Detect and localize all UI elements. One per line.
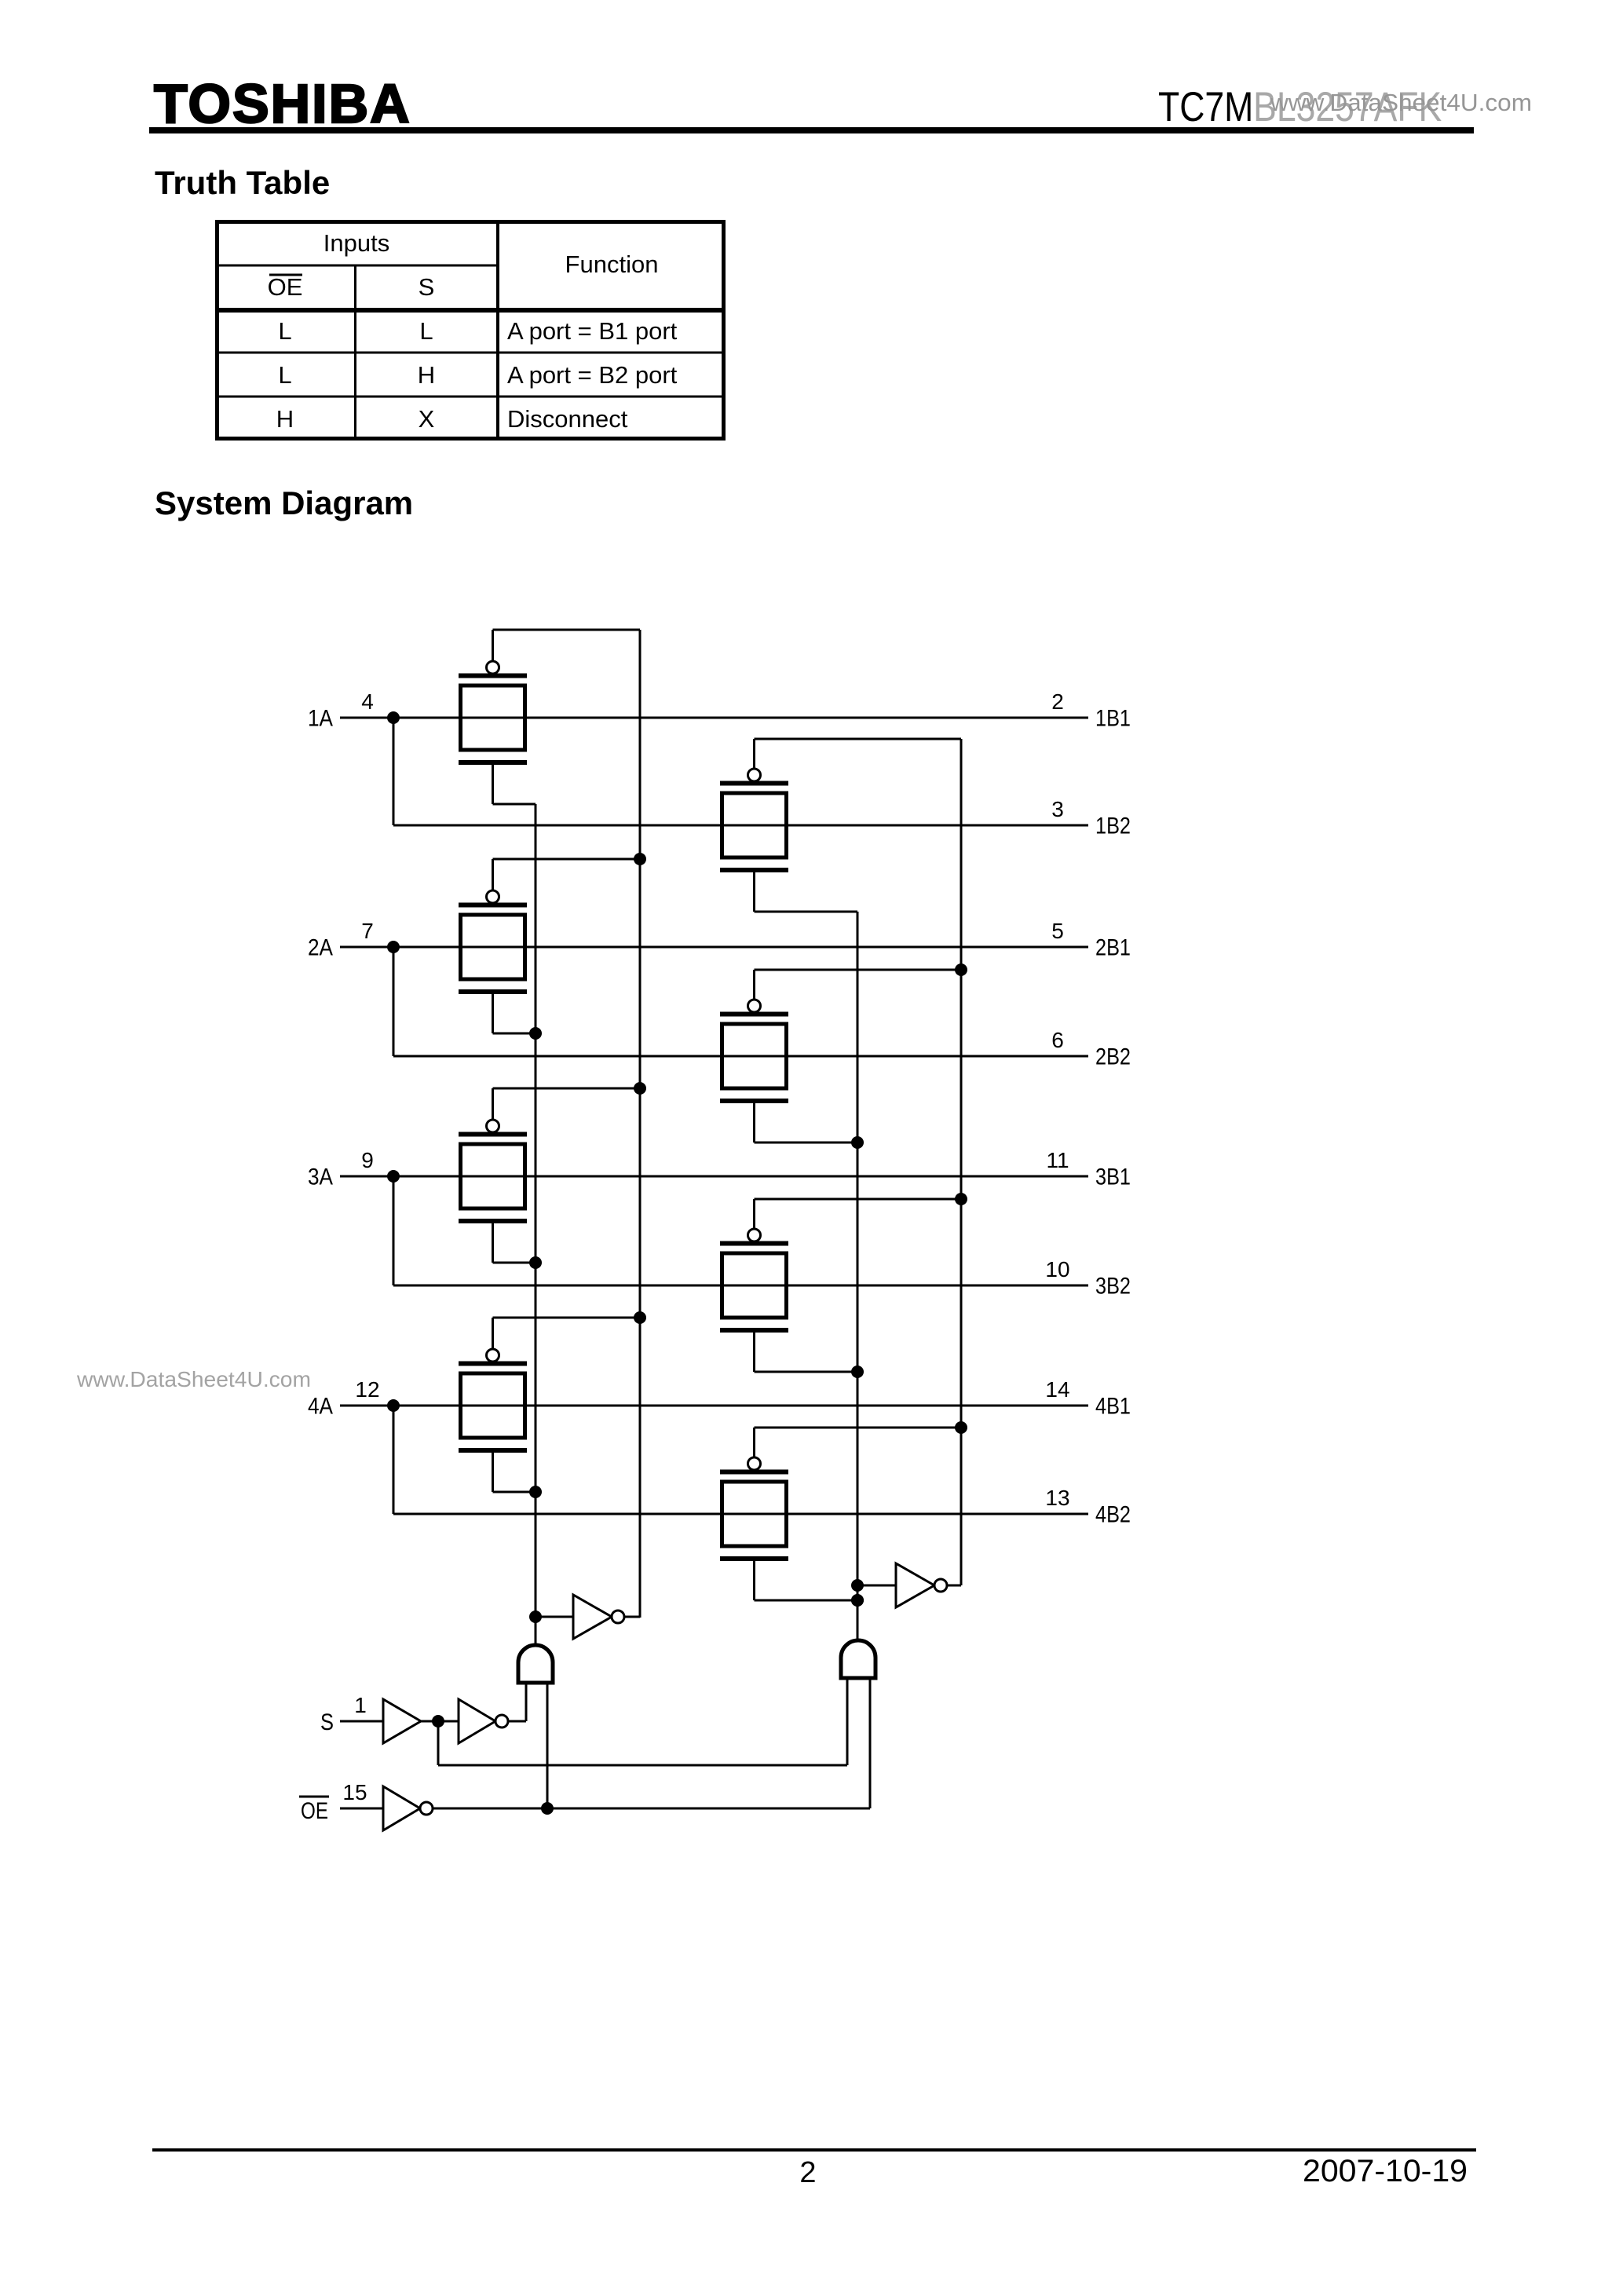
svg-text:3: 3 (1051, 797, 1064, 821)
pin 5 (2B1) (1051, 919, 1064, 943)
svg-text:H: H (418, 361, 435, 389)
wire U4 output to rail (623, 1616, 640, 1618)
wire 2B2 line (393, 1055, 1088, 1058)
wire SW2B top gate to rail (755, 970, 962, 1000)
node SW3B top gate on rail (955, 1193, 967, 1205)
table row 2 (278, 361, 677, 389)
wire 1A to 1B1 line (340, 717, 1088, 719)
pin 12 (4A) (355, 1377, 379, 1402)
wire rail: AND1 output to A-switch bottom gates (535, 804, 537, 1645)
svg-text:2: 2 (1051, 689, 1064, 714)
node 1B1 label (1095, 706, 1131, 732)
wire 2A branch down to 2B2 line (393, 947, 395, 1056)
node 3B1 label (1095, 1164, 1131, 1190)
wire SW4B top gate to rail (755, 1428, 962, 1458)
wire SW1A bottom gate to rail (493, 765, 536, 804)
table row 3 (276, 405, 628, 433)
switch SW3B (3A-3B2) (720, 1229, 788, 1333)
switch SW4B (4A-4B2) (720, 1457, 788, 1561)
wire G2 output to inverter U5 (857, 1585, 896, 1587)
svg-text:3B2: 3B2 (1095, 1274, 1131, 1300)
wire SW4A bottom gate to rail (493, 1453, 536, 1492)
node OE label with overline (299, 1797, 329, 1824)
switch SW1A (1A-1B1) (459, 661, 527, 765)
page number (799, 2156, 816, 2189)
wire S junction to AND2 input (438, 1678, 847, 1765)
svg-text:1A: 1A (308, 706, 333, 732)
wire 3A to 3B1 line (340, 1175, 1088, 1178)
wire rail: inverter U4 output to A-switch top gates (639, 630, 642, 1618)
node 2B2 label (1095, 1044, 1131, 1070)
node 1A junction (387, 711, 400, 724)
switch SW1B (1A-1B2) (720, 769, 788, 872)
pin 7 (2A) (361, 919, 374, 943)
node 3A junction (387, 1170, 400, 1183)
node SW2A bottom gate on rail (529, 1027, 542, 1040)
pin 9 (3A) (361, 1148, 374, 1172)
pin 11 (3B1) (1046, 1148, 1069, 1172)
svg-text:Function: Function (565, 250, 659, 278)
svg-text:www.DataSheet4U.com: www.DataSheet4U.com (1270, 89, 1532, 116)
node S label (320, 1709, 334, 1735)
pin 10 (3B2) (1045, 1257, 1069, 1281)
node G2 output junction (4B2 gate) (851, 1594, 864, 1607)
wire G1 right input from OE line (546, 1683, 549, 1808)
svg-text:H: H (276, 405, 294, 433)
node 3A label (308, 1164, 333, 1190)
node 4B2 label (1095, 1502, 1131, 1528)
svg-text:S: S (419, 273, 435, 301)
wire SW3B bottom gate to rail (755, 1333, 858, 1372)
table header S (419, 273, 435, 301)
wire 2A to 2B1 line (340, 946, 1088, 949)
node 2A junction (387, 941, 400, 953)
heading Truth Table (155, 164, 330, 201)
watermark www.DataSheet4U.com (header) (1270, 89, 1532, 116)
and-gate G1 (left) (518, 1645, 553, 1683)
watermark www.DataSheet4U.com (left) (76, 1367, 311, 1391)
svg-text:1: 1 (354, 1693, 367, 1717)
wire rail: AND2 output to B-switch bottom gates (857, 912, 859, 1640)
wire 3B2 line (393, 1285, 1088, 1287)
node 4A label (308, 1394, 333, 1420)
wire S input (340, 1720, 383, 1723)
svg-text:Inputs: Inputs (324, 229, 389, 257)
svg-text:OE: OE (268, 273, 303, 301)
wire 4A to 4B1 line (340, 1405, 1088, 1407)
node SW4B top gate on rail (955, 1421, 967, 1434)
svg-text:10: 10 (1045, 1257, 1069, 1281)
wire SW1A top gate to rail (493, 630, 641, 662)
svg-text:Disconnect: Disconnect (507, 405, 628, 433)
inverter U2 (S) (459, 1699, 508, 1743)
wire OE input (340, 1808, 383, 1810)
node G1 output junction (529, 1610, 542, 1623)
svg-text:2007-10-19: 2007-10-19 (1303, 2154, 1468, 2188)
svg-text:System Diagram: System Diagram (155, 484, 413, 521)
wire SW2B bottom gate to rail (755, 1103, 858, 1143)
svg-text:L: L (278, 317, 291, 345)
svg-text:12: 12 (355, 1377, 379, 1402)
svg-text:4B1: 4B1 (1095, 1394, 1131, 1420)
svg-text:7: 7 (361, 919, 374, 943)
node SW4A top gate on rail (634, 1311, 646, 1324)
wire 1B2 line (393, 824, 1088, 827)
node 2B1 label (1095, 935, 1131, 961)
wire SW1B bottom gate to rail (755, 872, 858, 912)
svg-text:TOSHIBA: TOSHIBA (154, 73, 411, 134)
svg-text:1B1: 1B1 (1095, 706, 1131, 732)
svg-text:www.DataSheet4U.com: www.DataSheet4U.com (76, 1367, 311, 1391)
buffer U1 (S input) (383, 1699, 421, 1743)
wire SW2A top gate to rail (493, 859, 641, 891)
svg-text:14: 14 (1045, 1377, 1069, 1402)
svg-text:4: 4 (361, 689, 374, 714)
wire SW3B top gate to rail (755, 1199, 962, 1230)
svg-text:15: 15 (342, 1780, 367, 1804)
wire SW3A bottom gate to rail (493, 1223, 536, 1263)
switch SW4A (4A-4B1) (459, 1349, 527, 1453)
wire U2 output to AND1 input (508, 1683, 526, 1721)
footer date (1303, 2154, 1468, 2188)
switch SW2B (2A-2B2) (720, 1000, 788, 1103)
pin 1 (S) (354, 1693, 367, 1717)
wire U5 output to rail (946, 1585, 961, 1587)
node 1B2 label (1095, 813, 1131, 839)
footer rule (152, 2148, 1476, 2152)
node S buffered junction (432, 1715, 444, 1727)
svg-text:A port = B2 port: A port = B2 port (507, 361, 678, 389)
svg-text:2A: 2A (308, 935, 333, 961)
svg-text:11: 11 (1046, 1148, 1069, 1172)
table header Inputs (324, 229, 389, 257)
wire rail: inverter U5 output to B-switch top gates (960, 739, 963, 1585)
node 2A label (308, 935, 333, 961)
wire SW4B bottom gate to rail (755, 1561, 858, 1600)
truth table frame (215, 220, 726, 441)
svg-text:6: 6 (1051, 1028, 1064, 1052)
svg-text:2B1: 2B1 (1095, 935, 1131, 961)
wire SW4A top gate to rail (493, 1318, 641, 1350)
node SW4B bottom gate on rail (851, 1594, 864, 1607)
wire SW2A bottom gate to rail (493, 994, 536, 1033)
node OE line to G1 right input (541, 1802, 554, 1815)
pin 13 (4B2) (1045, 1486, 1069, 1510)
svg-text:5: 5 (1051, 919, 1064, 943)
svg-text:X: X (419, 405, 435, 433)
node SW4A bottom gate on rail (529, 1486, 542, 1498)
svg-text:9: 9 (361, 1148, 374, 1172)
wire SW3A top gate to rail (493, 1088, 641, 1121)
node 4A junction (387, 1399, 400, 1412)
node 4B1 label (1095, 1394, 1131, 1420)
node 1A label (308, 706, 333, 732)
svg-text:4B2: 4B2 (1095, 1502, 1131, 1528)
node SW2B bottom gate on rail (851, 1136, 864, 1149)
node SW2A top gate on rail (634, 853, 646, 865)
wire 4B2 line (393, 1513, 1088, 1515)
TOSHIBA logo (154, 73, 411, 134)
wire 3A branch down to 3B2 line (393, 1176, 395, 1285)
switch SW2A (2A-2B1) (459, 890, 527, 994)
svg-text:OE: OE (301, 1798, 328, 1824)
wire 4A branch down to 4B2 line (393, 1406, 395, 1514)
table header OE with overline (268, 273, 303, 301)
node G2 output junction (inverter tap) (851, 1579, 864, 1592)
svg-text:1B2: 1B2 (1095, 813, 1131, 839)
pin 3 (1B2) (1051, 797, 1064, 821)
node 3B2 label (1095, 1274, 1131, 1300)
pin 4 (1A) (361, 689, 374, 714)
node SW3A bottom gate on rail (529, 1256, 542, 1269)
svg-text:3A: 3A (308, 1164, 333, 1190)
wire OE inverted line to AND2 (433, 1678, 870, 1808)
table row 1 (278, 317, 677, 345)
node SW3B bottom gate on rail (851, 1366, 864, 1378)
wire 1A branch down to 1B2 line (393, 718, 395, 825)
pin 15 (OE) (342, 1780, 367, 1804)
wire U1 output to U2 (421, 1720, 459, 1723)
pin 2 (1B1) (1051, 689, 1064, 714)
table header Function (565, 250, 659, 278)
pin 14 (4B1) (1045, 1377, 1069, 1402)
svg-text:L: L (419, 317, 433, 345)
svg-text:3B1: 3B1 (1095, 1164, 1131, 1190)
wire G1 output to inverter U4 (536, 1616, 573, 1618)
inverter U3 (OE) (383, 1786, 433, 1830)
svg-text:13: 13 (1045, 1486, 1069, 1510)
and-gate G2 (right) (841, 1640, 875, 1678)
wire SW1B top gate to rail (755, 739, 962, 770)
heading System Diagram (155, 484, 413, 521)
header rule (149, 127, 1474, 133)
part number TC7MBL3257AFK (1158, 84, 1442, 130)
switch SW3A (3A-3B1) (459, 1120, 527, 1223)
svg-text:2: 2 (799, 2156, 816, 2189)
svg-text:4A: 4A (308, 1394, 333, 1420)
svg-text:S: S (320, 1709, 334, 1735)
pin 6 (2B2) (1051, 1028, 1064, 1052)
inverter U4 (A-side rail) (573, 1595, 624, 1639)
svg-text:2B2: 2B2 (1095, 1044, 1131, 1070)
svg-text:A port = B1 port: A port = B1 port (507, 317, 678, 345)
svg-text:Truth Table: Truth Table (155, 164, 330, 201)
node SW2B top gate on rail (955, 963, 967, 976)
inverter U5 (B-side rail) (896, 1563, 947, 1607)
svg-text:L: L (278, 361, 291, 389)
node SW3A top gate on rail (634, 1082, 646, 1095)
